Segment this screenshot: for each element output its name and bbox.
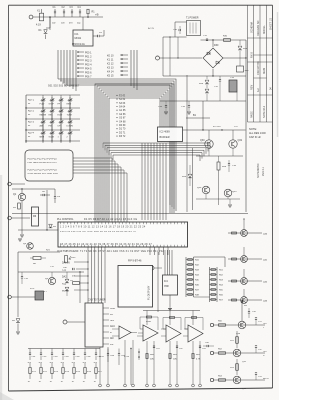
resistor ladder RA2 bbox=[209, 267, 211, 302]
capacitor C36 bbox=[228, 160, 230, 163]
wire audio input drops bbox=[138, 332, 143, 334]
wire net REG1 bbox=[183, 129, 246, 131]
capacitor C34 bbox=[165, 101, 167, 105]
terminal J5 bbox=[156, 56, 160, 60]
capacitor C61 bbox=[29, 349, 31, 353]
node P1 pin label row 2 bbox=[78, 55, 84, 57]
wire keypad row net R1 bbox=[26, 107, 80, 109]
switch S6 bbox=[51, 108, 53, 111]
capacitor C9 bbox=[54, 189, 56, 196]
switch S14 bbox=[51, 130, 53, 133]
resistor R63 feedback U12 bbox=[140, 317, 158, 330]
capacitor C43 bbox=[199, 345, 201, 347]
wire net left-6 bbox=[79, 272, 81, 303]
bridge rectifier D30 bbox=[203, 48, 223, 68]
node MUTE label row bbox=[74, 289, 88, 291]
transformer T1 bbox=[187, 21, 201, 36]
wire bus lower-left stair band bbox=[73, 158, 112, 222]
op-amp U14 bbox=[188, 325, 203, 342]
crystal X1 bbox=[39, 13, 43, 21]
resistor R76 bbox=[84, 363, 86, 367]
node P2 pin label row 3 bbox=[78, 59, 84, 61]
wire net REG3 bbox=[218, 170, 220, 205]
wire audio top rail bbox=[143, 310, 200, 312]
ground sym GND3 bbox=[16, 331, 20, 333]
resistor R51 bbox=[236, 331, 238, 348]
wire CPU bottom stubs right bbox=[149, 247, 151, 255]
capacitor C63 bbox=[51, 349, 53, 353]
transistor Q1 bbox=[18, 193, 25, 200]
wire net DC2 bbox=[160, 100, 246, 102]
transistor Q32 bbox=[202, 186, 210, 194]
capacitor C8 bbox=[42, 194, 44, 196]
wire stage feed bbox=[241, 300, 243, 321]
op-amp U12 bbox=[143, 325, 158, 341]
terminal J7 bbox=[63, 320, 67, 324]
switch S10 bbox=[51, 119, 53, 122]
transistor Q33 bbox=[224, 189, 232, 197]
U10 pin ticks top edge bbox=[60, 222, 62, 224]
wire net REG2 bbox=[196, 155, 243, 157]
op-amp U3 (bus interface IC) bbox=[158, 127, 183, 142]
transistor Q31 bbox=[229, 140, 237, 148]
capacitor C66 bbox=[84, 349, 86, 353]
ground sym GND4 bbox=[229, 199, 231, 204]
capacitor C67 bbox=[95, 349, 97, 353]
U10 pin ticks bottom edge bbox=[60, 245, 62, 247]
wire net REG4 bbox=[196, 198, 240, 200]
wire bus arch left leg to CPU bbox=[95, 84, 174, 222]
ground sym GND5 bbox=[169, 295, 171, 307]
ground sym GND1 bbox=[21, 208, 23, 234]
wire bridge output bbox=[223, 57, 246, 59]
node test point TP1 bbox=[138, 351, 140, 353]
capacitor C69 bbox=[118, 349, 120, 354]
switch S12 bbox=[69, 119, 71, 122]
zener diode D6 bbox=[17, 300, 19, 317]
wire bus mid horizontal band bbox=[103, 143, 210, 149]
capacitor C31 bbox=[206, 38, 208, 40]
transistor Q42 cell bbox=[228, 280, 262, 282]
wire display feed lines bbox=[157, 252, 159, 312]
wire net left-1 bbox=[12, 188, 55, 190]
switch S5 bbox=[42, 108, 44, 111]
node CN3 pin 5 bbox=[103, 331, 109, 333]
op-amp U1 (clock IC) bbox=[73, 30, 93, 46]
connector CN1 signal table bbox=[25, 150, 73, 181]
wire net left-4 bbox=[18, 251, 60, 253]
connector CN3 (bottom-left header) bbox=[85, 303, 103, 347]
resistor R32 bbox=[217, 162, 220, 170]
node P6 pin label row 7 bbox=[78, 75, 84, 77]
wire to IC1 bbox=[49, 17, 51, 30]
resistor R65 feedback U14 bbox=[185, 318, 203, 331]
wire +B rail bbox=[245, 40, 247, 212]
node P3 pin label row 4 bbox=[78, 63, 84, 65]
node DA2 label row bbox=[74, 275, 88, 277]
wire bus below interface box to CPU bbox=[141, 143, 143, 220]
terminal J3 bbox=[8, 216, 12, 220]
op-amp U4 (driver IC) bbox=[163, 275, 178, 295]
resistor ladder RA1 bbox=[185, 257, 187, 297]
resistor R71 bbox=[29, 363, 31, 367]
wire net left-2 bbox=[46, 190, 48, 230]
op-amp U13 bbox=[166, 325, 181, 342]
relay contact SW30 bbox=[237, 66, 244, 72]
resistor R75 bbox=[73, 363, 75, 367]
potentiometer VR1 bbox=[65, 256, 68, 263]
node CN3 pin 6 bbox=[103, 337, 109, 339]
switch S16 bbox=[69, 130, 71, 133]
schematic border frame bbox=[9, 4, 273, 6]
wire CPU bottom pin bus bbox=[87, 247, 89, 303]
transistor Q43 cell bbox=[228, 299, 262, 301]
wire bus horizontal from U1 to right leg bbox=[58, 79, 176, 211]
switch S11 bbox=[60, 119, 62, 122]
capacitor C1 bbox=[54, 13, 56, 17]
capacitor C64 bbox=[62, 349, 64, 353]
resistor R72 bbox=[40, 363, 42, 367]
node DA1 label row bbox=[74, 261, 88, 263]
switch S15 bbox=[60, 130, 62, 133]
terminal J2 bbox=[8, 182, 12, 186]
wire CN3 output drops bbox=[99, 347, 101, 384]
capacitor C35 bbox=[188, 101, 190, 105]
wire net DC3 bbox=[202, 101, 204, 130]
wire net AC3 bbox=[169, 37, 171, 76]
wire audio output drops bbox=[146, 341, 148, 384]
display unit DS1 (shield box) bbox=[118, 266, 153, 308]
transistor Q50 stage bbox=[213, 324, 265, 326]
wire net bottom-1 bbox=[130, 349, 132, 386]
transistor Q30 bbox=[205, 140, 213, 148]
capacitor C10 bbox=[21, 272, 23, 276]
resistor R1 bbox=[87, 14, 89, 18]
node CN3 pin 7 bbox=[103, 343, 109, 345]
capacitor C41 bbox=[153, 345, 155, 347]
input terminal J1 bbox=[29, 15, 33, 19]
wire keypad row net R2 bbox=[26, 118, 80, 120]
wire bottom rail bbox=[28, 348, 100, 350]
capacitor C65 bbox=[73, 349, 75, 353]
resistor R6 (power resistor) bbox=[32, 207, 39, 226]
resistor R60 bbox=[146, 354, 148, 359]
wire long vertical net V1 bbox=[186, 75, 188, 212]
transistor Q51 stage bbox=[213, 352, 265, 354]
resistor R53 bbox=[236, 359, 238, 375]
node output terminals bbox=[146, 384, 149, 387]
switch S3 bbox=[60, 97, 62, 100]
diode D3 bbox=[49, 224, 53, 228]
capacitor C30 bbox=[178, 29, 180, 31]
terminal J6 bbox=[150, 266, 154, 270]
diode D5 bbox=[65, 287, 69, 291]
node P0 pin label row 1 bbox=[78, 51, 84, 53]
transistor Q2 bbox=[27, 243, 34, 250]
capacitor C2 bbox=[63, 13, 65, 17]
wires to second pin label column bbox=[130, 50, 132, 86]
wire U11 output drops bbox=[124, 340, 126, 384]
microcontroller U10 (CPU) bbox=[58, 222, 188, 247]
resistor R62 bbox=[192, 354, 194, 359]
node P4 pin label row 5 bbox=[78, 67, 84, 69]
switch S9 bbox=[42, 119, 44, 122]
wire net DC1 bbox=[163, 75, 246, 77]
wire net left-3 bbox=[18, 229, 60, 231]
wire bus from U1 pins bbox=[57, 50, 59, 79]
wire rectifier top bbox=[201, 39, 247, 41]
switch S2 bbox=[51, 97, 53, 100]
node CN3 pin 4 bbox=[103, 325, 109, 327]
capacitor C33 (can) bbox=[229, 80, 237, 92]
wire keypad column feeds bbox=[42, 95, 44, 143]
diode D31 bbox=[239, 40, 241, 45]
wire keypad left rail bbox=[25, 95, 27, 143]
terminal J4 bbox=[8, 295, 12, 299]
capacitor C5 bbox=[93, 35, 98, 37]
wire AC input bbox=[175, 21, 187, 23]
wire ladder link bbox=[194, 257, 226, 267]
wire regulator top rail bbox=[186, 117, 210, 119]
transistor Q3 bbox=[48, 277, 55, 284]
wire net AC4 bbox=[177, 37, 179, 58]
wire keypad row net R3 bbox=[26, 129, 80, 131]
resistor R74 bbox=[62, 363, 64, 367]
transistor Q52 stage bbox=[213, 379, 265, 381]
resistor R30 bbox=[224, 39, 231, 42]
resistor R77 bbox=[95, 363, 97, 367]
diode D4 bbox=[65, 279, 69, 283]
title block table bbox=[247, 5, 249, 122]
resistor R5 bbox=[18, 203, 21, 209]
wire CPU-right vertical bus bbox=[164, 250, 166, 275]
capacitor C4 bbox=[79, 13, 81, 17]
wire horizontal net above CPU bbox=[12, 213, 248, 215]
node CN3 pin 2 bbox=[103, 313, 109, 315]
capacitor C32 (electrolytic) bbox=[219, 76, 221, 79]
capacitor C62 bbox=[40, 349, 42, 353]
wire net AC2 bbox=[162, 37, 164, 76]
diode D1 bbox=[49, 17, 51, 28]
resistor R8 bbox=[33, 257, 41, 260]
node P5 pin label row 6 bbox=[78, 71, 84, 73]
wire keypad row net R4 bbox=[26, 140, 80, 142]
wire long vertical net V2 bbox=[192, 148, 194, 210]
switch S8 bbox=[69, 108, 71, 111]
resistor R12 bbox=[80, 282, 88, 284]
switch S13 bbox=[42, 130, 44, 133]
resistor R61 bbox=[169, 354, 171, 359]
op-amp U11 bbox=[119, 326, 131, 339]
capacitor C40 bbox=[206, 345, 208, 347]
diode D33 bbox=[188, 174, 192, 178]
transistor Q40 cell bbox=[228, 232, 262, 234]
switch S4 bbox=[69, 97, 71, 100]
capacitor C42 bbox=[176, 345, 178, 347]
transistor Q41 cell bbox=[228, 258, 262, 260]
resistor R64 feedback U13 bbox=[163, 318, 181, 331]
capacitor C12 bbox=[76, 268, 88, 270]
switch S7 bbox=[60, 108, 62, 111]
node CN3 pin 3 bbox=[103, 319, 109, 321]
capacitor C68 bbox=[107, 349, 109, 354]
resistor R73 bbox=[51, 363, 53, 367]
node CN3 pin 1 bbox=[103, 307, 109, 309]
wire net left-5 bbox=[18, 271, 84, 273]
relay RY1 (coil box) bbox=[35, 291, 44, 300]
switch S1 bbox=[42, 97, 44, 100]
scan edge shading (decorative) bbox=[0, 175, 2, 400]
ground sym GND2 bbox=[18, 238, 22, 240]
zener diode D32 bbox=[206, 76, 208, 79]
capacitor C50 bbox=[248, 308, 250, 311]
capacitor C3 bbox=[71, 13, 73, 17]
